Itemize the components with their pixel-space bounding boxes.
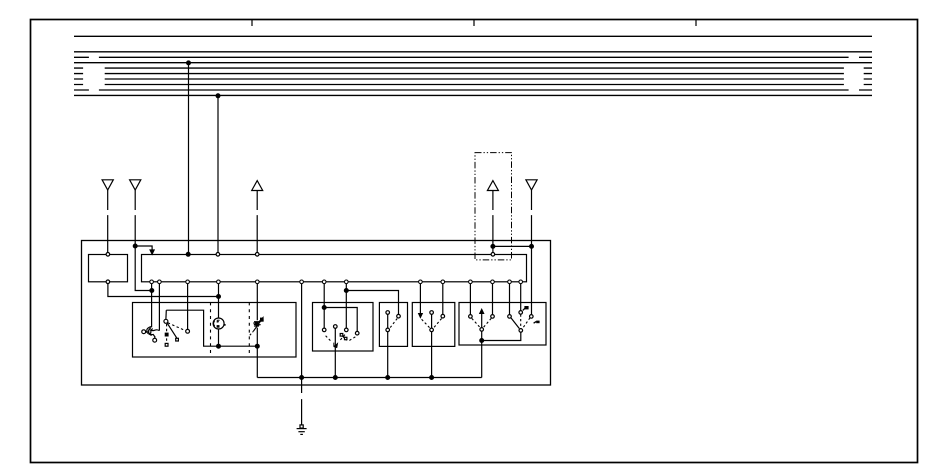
linkage end square <box>165 343 168 346</box>
branch wire B to connector row <box>135 246 152 251</box>
lock switch contact circle <box>186 329 190 333</box>
dashed linkage down <box>166 324 168 343</box>
bus wire 7 <box>74 78 872 80</box>
bus wire 3 <box>74 56 872 58</box>
ground bus wire <box>257 377 481 379</box>
lever pivot lead <box>165 310 167 319</box>
wire contact 5c <box>509 284 511 315</box>
contact circle 2d <box>355 331 359 335</box>
bus wire 8 <box>74 84 872 86</box>
switch 2 return spring arrow <box>334 343 336 346</box>
bus wire 2 <box>74 51 872 53</box>
wire below triangle A <box>107 190 109 252</box>
contact circle 3a <box>386 311 390 315</box>
wire contact 4a <box>419 284 421 314</box>
dashed linkage lever to lock contact <box>168 323 186 331</box>
contact circle 4center <box>430 311 434 315</box>
junction dot motor bottom <box>217 344 221 348</box>
bus wire 6 <box>74 73 872 75</box>
lever arm end contact square <box>176 338 179 341</box>
lever arm <box>167 323 177 338</box>
contact circle 5c <box>508 315 512 319</box>
junction dot strip top <box>186 252 190 256</box>
motor M lead bottom <box>218 329 220 346</box>
arrow terminal into control box <box>150 250 154 254</box>
junction dot resistor bottom <box>255 344 259 348</box>
terminal circle small box top <box>106 253 110 257</box>
wire from small box to motor node <box>108 284 219 297</box>
wire below triangle C <box>256 191 258 253</box>
junction dot 2a <box>322 306 326 310</box>
switch 4 pole wire <box>431 315 433 378</box>
wire below triangle B <box>135 190 152 291</box>
wire resistor to ground bus <box>256 347 258 378</box>
terminal circle strip top 3 <box>491 253 495 257</box>
contact circle 4b <box>441 314 445 318</box>
junction dot bus 4 <box>430 376 434 380</box>
switch box 4 <box>412 303 455 347</box>
wire to lock knob contact 2 <box>158 284 160 331</box>
bus wire 10 <box>74 94 872 96</box>
wire 2b to box3 <box>346 291 398 315</box>
contact circle 5e <box>530 315 534 319</box>
switch 2 output wire <box>334 329 336 378</box>
wire contact 5b <box>492 284 494 315</box>
motor M body <box>213 318 224 329</box>
variable resistor lead <box>256 284 258 346</box>
wire to lock knob contact 1 <box>151 284 153 328</box>
bus wire 9 <box>74 89 872 91</box>
contact circle 5R pivot <box>519 329 523 333</box>
wire below triangle D <box>492 191 494 253</box>
motor M lead top <box>218 284 220 318</box>
wire drop 1 from bus <box>188 63 190 255</box>
junction dot bus 2 <box>333 376 337 380</box>
wire below triangle E <box>531 190 533 314</box>
connector triangle A (down) <box>102 180 113 190</box>
arrow contact 4a <box>419 314 423 318</box>
wire contact 5a <box>469 284 471 315</box>
junction dot 5L <box>480 339 484 343</box>
contact circle 5a <box>469 315 473 319</box>
contact circle 2b <box>345 328 349 332</box>
knob small circle <box>153 338 157 342</box>
dashed actuator line 1a <box>210 302 212 355</box>
wire contact 4b <box>442 284 444 314</box>
switch 3 pole wire <box>387 315 389 378</box>
contact circle 2a <box>322 328 326 332</box>
terminal circle small box bottom <box>106 280 110 284</box>
switch 5R dashed linkages <box>521 314 530 328</box>
connector triangle B (down) <box>130 180 141 190</box>
switch assembly box 1 <box>133 303 297 358</box>
contact circle 5b <box>491 315 495 319</box>
knob left contact circle <box>142 330 146 334</box>
switch box 5 <box>459 303 546 346</box>
switch box 3 <box>379 303 407 347</box>
border tick 3 <box>695 19 697 26</box>
bus wire 4 <box>74 62 872 64</box>
knob detent mechanism <box>145 327 152 333</box>
wire between D and E <box>493 245 532 247</box>
dashed actuator line 1b <box>248 302 250 355</box>
switch 5L dashed linkages <box>472 318 491 327</box>
lever pivot circle <box>164 319 168 323</box>
ground wire from strip <box>301 284 303 427</box>
contact circle 3b <box>397 314 401 318</box>
switch 2 common contact <box>334 325 338 329</box>
switch box 2 <box>313 303 374 352</box>
switch 5R arm <box>511 318 519 329</box>
knob left contact line <box>146 331 149 333</box>
direction icon up <box>524 306 528 309</box>
terminal circle strip top 1 <box>216 253 220 257</box>
junction dot bus 3 <box>386 376 390 380</box>
junction dot on bus wire 10 <box>216 94 220 98</box>
connector triangle E (down) <box>526 180 537 190</box>
bus wire 5 <box>74 67 872 69</box>
switch 4 dashed linkages <box>422 319 442 328</box>
switch 2 moving contact <box>340 334 343 337</box>
dash-dot option box <box>475 153 512 260</box>
junction dot at switch feed <box>150 289 154 293</box>
relay small box <box>89 255 128 282</box>
contact circle 5d <box>519 311 523 315</box>
contact circle 4pivot <box>430 328 434 332</box>
junction dot D <box>491 245 495 249</box>
border tick 1 <box>251 19 253 26</box>
wire contact 5d <box>520 284 522 311</box>
junction dot ground at bus <box>300 376 304 380</box>
junction dot node B <box>133 244 137 248</box>
contact circle 3pivot <box>386 328 390 332</box>
variable resistor arrow <box>253 321 261 332</box>
control unit outer box <box>82 241 551 386</box>
contact circle 5L pivot <box>480 328 484 332</box>
junction dot motor node <box>217 295 221 299</box>
terminal circle strip top 2 <box>255 253 259 257</box>
junction dot E <box>530 245 534 249</box>
terminal circles strip bottom <box>150 280 523 284</box>
inner frame of switch box 1 <box>166 310 257 346</box>
border tick 2 <box>473 19 475 26</box>
junction dot on bus wire 4 <box>187 61 191 65</box>
wire contact 2b <box>345 284 347 328</box>
switch 2 dashed linkages <box>326 335 356 342</box>
L-wire to contact 2d <box>324 308 357 332</box>
wire 5L to 5R <box>482 332 521 340</box>
wire to lock switch contact <box>187 284 189 329</box>
variable resistor zigzag <box>253 322 260 327</box>
switch 3 dashed linkage <box>390 319 397 328</box>
wire drop 2 from bus <box>217 96 219 255</box>
ground symbol <box>300 425 303 428</box>
connector triangle C (up) <box>252 181 263 191</box>
bus wire 1 <box>74 35 872 37</box>
switch 5L arrow pole <box>481 313 483 327</box>
junction dot 2b <box>344 289 348 293</box>
switch 5L output <box>481 331 483 377</box>
direction icon down <box>536 321 539 324</box>
connector triangle D (up, in dash-dot box) <box>487 181 498 191</box>
linkage filled square <box>165 333 168 336</box>
wire contact 2a <box>323 284 325 328</box>
connector strip box <box>142 255 527 282</box>
